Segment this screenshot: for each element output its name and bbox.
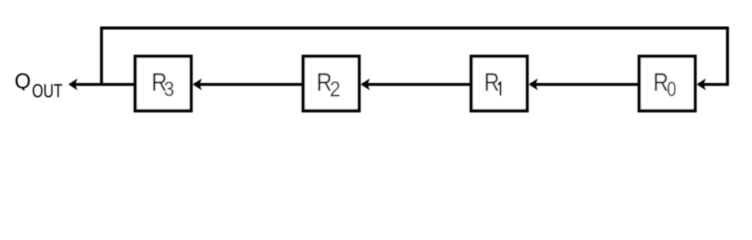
arrowhead into R0 bbox=[697, 79, 706, 91]
wire R2 to R3 bbox=[199, 83, 305, 86]
arrowhead into Q_OUT node bbox=[68, 79, 77, 91]
arrowhead into R2 bbox=[361, 79, 370, 91]
label Q_OUT bbox=[16, 73, 63, 97]
wire R0 to R1 bbox=[535, 83, 641, 86]
register R1 bbox=[471, 56, 527, 111]
register R3 bbox=[135, 56, 191, 111]
wire Q_OUT output wire bbox=[75, 83, 137, 86]
arrowhead into R3 bbox=[193, 79, 202, 91]
arrowhead into R1 bbox=[529, 79, 538, 91]
wire feedback loop bbox=[102, 28, 728, 84]
register R0 bbox=[639, 56, 695, 111]
wire R1 to R2 bbox=[367, 83, 473, 86]
register R2 bbox=[303, 56, 359, 111]
